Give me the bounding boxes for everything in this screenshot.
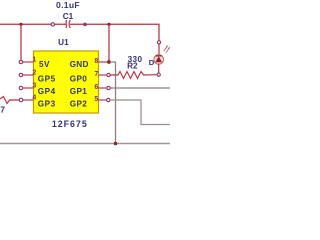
pin 7 stub [99, 74, 108, 76]
wire GND to ground rail [110, 62, 116, 144]
resistor R2 [111, 72, 157, 79]
svg-text:3: 3 [32, 82, 36, 89]
pin 2 stub [23, 74, 34, 76]
pin 3 marker [19, 86, 22, 89]
svg-text:GP0: GP0 [70, 74, 87, 83]
pin 8 junction [107, 60, 111, 64]
pin 8 stub [99, 61, 109, 63]
svg-text:GP4: GP4 [38, 87, 56, 96]
pin 6 terminal circle [107, 86, 110, 89]
IC U1 12F675 body [34, 51, 99, 113]
svg-text:2: 2 [32, 69, 36, 76]
svg-text:GND: GND [70, 60, 89, 69]
ground rail bottom [0, 143, 170, 145]
LED light arrow 1 [164, 46, 168, 51]
pin 3 stub [23, 87, 34, 89]
wire right vertical to pin8 [108, 24, 110, 61]
pin 5 marker [107, 98, 110, 101]
LED triangle [155, 56, 162, 62]
LED D1 [154, 41, 170, 77]
svg-text:7: 7 [0, 105, 5, 115]
LED body circle [154, 55, 164, 65]
junction left top [19, 23, 22, 26]
pin 1 stub [23, 61, 34, 63]
svg-text:GP2: GP2 [70, 99, 87, 108]
svg-text:R2: R2 [127, 62, 138, 71]
svg-text:GP5: GP5 [38, 74, 56, 83]
wire top 5V rail [0, 24, 159, 40]
svg-text:GP1: GP1 [70, 87, 87, 96]
svg-text:D: D [149, 58, 155, 67]
pin 6 stub [99, 87, 108, 89]
wire GP1 to right edge [111, 87, 171, 89]
resistor (partial, label 7) at left edge [0, 97, 19, 104]
capacitor C1 [51, 20, 87, 28]
svg-text:8: 8 [94, 58, 98, 65]
wire LED bottom lead [158, 64, 160, 74]
LED cathode bar [156, 55, 162, 57]
svg-text:GP3: GP3 [38, 99, 56, 108]
svg-text:U1: U1 [58, 38, 69, 47]
svg-text:1: 1 [32, 56, 36, 63]
junction ground rail [114, 142, 118, 146]
wire LED top lead [158, 44, 160, 55]
svg-text:7: 7 [94, 71, 98, 78]
svg-text:5: 5 [94, 96, 98, 103]
svg-text:5V: 5V [39, 60, 50, 69]
pin 1 marker [19, 60, 22, 63]
pin 5 stub [99, 99, 107, 101]
svg-text:6: 6 [94, 84, 98, 91]
svg-text:C1: C1 [63, 12, 74, 21]
pin 4 terminal circle [19, 98, 23, 102]
LED bottom terminal circle [157, 73, 160, 76]
wire GP2 step to right edge [110, 100, 170, 125]
pin 2 marker [19, 73, 22, 76]
pin 4 stub [23, 99, 34, 101]
svg-text:4: 4 [32, 94, 36, 101]
LED top terminal circle [157, 41, 160, 44]
svg-text:12F675: 12F675 [52, 119, 88, 129]
junction right top [107, 23, 110, 26]
LED light arrow 2 [166, 48, 170, 53]
wire left vertical to pin1 [20, 24, 22, 61]
svg-text:0.1uF: 0.1uF [56, 0, 80, 10]
pin 7 terminal circle [107, 73, 110, 76]
